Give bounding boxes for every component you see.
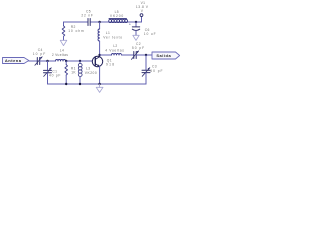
inductor L5 VK200 [109, 10, 128, 23]
inductor L3 VK200 [78, 61, 97, 84]
svg-text:VK200: VK200 [85, 71, 97, 75]
node (junction at C6 top) [135, 21, 137, 23]
svg-text:10 pF: 10 pF [33, 52, 46, 56]
svg-text:50 pF: 50 pF [132, 46, 145, 50]
transistor Q1 [92, 55, 115, 67]
svg-text:+: + [129, 23, 131, 27]
wire L4 to base [66, 60, 93, 62]
inductor L1 [98, 22, 123, 55]
svg-text:40 pF: 40 pF [49, 74, 61, 78]
svg-text:2 Vueltas: 2 Vueltas [52, 53, 68, 57]
wire C4 to node [40, 60, 56, 62]
node (R1 bottom) [65, 83, 67, 85]
svg-text:Ver texto: Ver texto [103, 36, 123, 40]
resistor R2 [62, 22, 84, 40]
wire collector to L2 [100, 54, 112, 56]
ground (main) [96, 84, 103, 92]
net label Salida [152, 52, 180, 59]
node (junction at L1 top) [98, 21, 100, 23]
wire to power port [141, 17, 143, 22]
svg-text:Salida: Salida [156, 53, 171, 58]
wire ground rail [48, 83, 147, 85]
capacitor C5 [81, 10, 93, 26]
svg-text:10 uF: 10 uF [144, 32, 157, 36]
inductor L2 [105, 44, 124, 55]
svg-text:V: V [141, 9, 144, 13]
wire top rail mid segment [90, 21, 141, 23]
node (C1 junction) [46, 60, 48, 62]
svg-text:L1: L1 [106, 31, 110, 35]
wire emitter down [99, 66, 101, 84]
capacitor C4 (trimmer, series input) [33, 48, 46, 65]
power port V1 13.8V [136, 1, 149, 17]
ground (below R2) [60, 40, 67, 45]
node (L3 bottom) [79, 83, 81, 85]
wire top rail left segment [64, 21, 89, 23]
svg-text:22 nF: 22 nF [81, 14, 93, 18]
inductor L4 [52, 49, 68, 62]
capacitor C6 (electrolytic) [129, 22, 156, 36]
wire C2 to Salida [136, 54, 152, 56]
node (L3 junction) [79, 60, 81, 62]
capacitor C3 (trimmer to ground at output) [142, 55, 163, 84]
svg-text:VK200: VK200 [110, 14, 124, 18]
ground (below C6) [133, 35, 139, 40]
net label Antena [3, 58, 29, 64]
resistor R1 [65, 61, 77, 84]
node (R1 junction) [65, 60, 67, 62]
svg-text:4 Vueltas: 4 Vueltas [105, 48, 124, 52]
svg-text:Antena: Antena [5, 58, 22, 63]
capacitor C1 (trimmer to ground at input) [44, 61, 62, 84]
node (emitter bottom) [98, 83, 100, 85]
node (collector junction) [98, 54, 100, 56]
svg-text:1K: 1K [71, 70, 76, 74]
svg-text:918: 918 [106, 62, 115, 66]
wire antenna to C4 [29, 60, 38, 62]
svg-text:60 pF: 60 pF [150, 69, 163, 73]
wire L2 to C2 [122, 54, 134, 56]
svg-text:10 ohm: 10 ohm [68, 29, 84, 33]
node (output junction) [145, 54, 147, 56]
capacitor C2 (trimmer, series output) [131, 42, 145, 59]
svg-text:C3: C3 [152, 65, 157, 69]
